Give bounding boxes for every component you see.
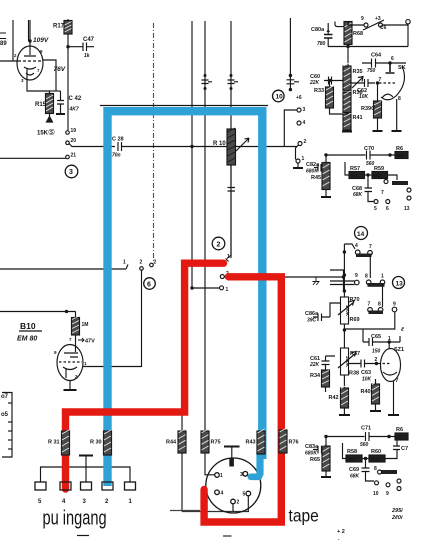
R35 wiper arrow [352, 77, 363, 89]
junction R69 bottom [343, 328, 346, 331]
ruler tick d [8, 439, 12, 441]
arrow C80a [327, 29, 330, 32]
wire row1b down [369, 255, 371, 278]
capacitor C82a [314, 164, 326, 172]
ground hatch on y277 [313, 277, 320, 285]
ruler tick c [8, 430, 12, 432]
wire pin2 to right cluster [224, 276, 343, 278]
svg-text:9: 9 [393, 302, 396, 308]
DIN pin5 [246, 491, 251, 496]
ground tube SZ bar [388, 414, 399, 416]
wire vertical x192 [191, 21, 193, 288]
resistor R33 body [326, 86, 334, 108]
svg-text:C83a: C83a [305, 444, 319, 450]
value box R60 [369, 455, 385, 462]
svg-text:R37: R37 [350, 351, 360, 357]
wire R38 bottom [343, 375, 345, 388]
junction C71 right [387, 435, 390, 438]
switch bank pin3 [297, 108, 301, 112]
svg-text:2: 2 [304, 139, 307, 145]
wire R69 bottom [343, 324, 345, 348]
resistor R17 body [64, 21, 72, 35]
potentiometer R70 body [341, 297, 351, 324]
svg-text:+ 2: + 2 [337, 529, 345, 535]
ruler tick e [8, 448, 12, 450]
svg-text:2: 2 [237, 500, 240, 506]
switch row3 contact 7 [368, 308, 373, 313]
ground R65 bar [321, 476, 331, 478]
wire R59 right [388, 175, 398, 180]
svg-text:+3: +3 [375, 16, 381, 22]
capacitor C28 series [118, 142, 297, 151]
svg-text:R68: R68 [353, 31, 363, 37]
svg-text:70n: 70n [112, 153, 121, 159]
svg-text:R65: R65 [310, 457, 320, 463]
svg-text:R43: R43 [246, 440, 256, 446]
svg-text:C80a: C80a [311, 27, 325, 33]
svg-text:76V: 76V [54, 66, 66, 73]
blue highlight main path [108, 111, 263, 486]
svg-text:2: 2 [154, 260, 157, 266]
wire tube SZ bottom [393, 381, 395, 414]
DIN pin1 [215, 473, 220, 478]
pin small circle right2 [397, 487, 401, 491]
switch row3 bar [369, 311, 384, 315]
wire y269 from left [0, 268, 126, 270]
svg-text:R70: R70 [350, 297, 360, 303]
dash mark below DIN [223, 535, 232, 537]
wire R65 leads [325, 437, 327, 477]
wire R68 top to switch [348, 22, 364, 26]
svg-text:SK: SK [398, 65, 406, 71]
input common wire y467 [41, 467, 131, 482]
junction pin6 C64 [388, 61, 391, 64]
junction y277 x343 [342, 275, 345, 278]
svg-text:R75: R75 [211, 440, 221, 446]
svg-text:R33: R33 [314, 88, 324, 94]
value box R58 [346, 455, 362, 462]
ground R42 bar [339, 414, 350, 416]
junction anode node [28, 39, 31, 42]
value box R59 [372, 172, 388, 179]
capacitor on x290 column [287, 80, 300, 84]
tube V4 arc [381, 66, 404, 100]
pin 5 circle [374, 200, 378, 204]
junction y436 left [324, 435, 327, 438]
switch 9-3 arrow [363, 20, 384, 30]
svg-text:5K6: 5K6 [351, 173, 360, 178]
wire pin20 to right long [69, 144, 115, 147]
switch bank pin1 [296, 159, 300, 163]
svg-text:109V: 109V [33, 37, 49, 44]
pin 1 circle right [397, 479, 401, 483]
svg-text:R 31: R 31 [48, 440, 60, 446]
svg-text:7: 7 [379, 77, 382, 83]
svg-text:ℓ: ℓ [400, 327, 404, 333]
svg-text:R35: R35 [353, 69, 363, 75]
svg-text:560: 560 [360, 442, 369, 448]
wire vertical left edge b [28, 20, 30, 41]
node circled 6 [144, 278, 156, 290]
arrow 47V [78, 338, 84, 342]
svg-text:C65: C65 [371, 334, 381, 340]
switch row1 contact b [368, 251, 373, 256]
wire R44 bottom lead [181, 453, 183, 512]
capacitor C64 [362, 59, 406, 68]
svg-text:1: 1 [123, 260, 126, 266]
wire EM80 pin1 right [83, 270, 142, 367]
wire horizontal y155 [326, 154, 366, 156]
value box R61 [395, 152, 408, 159]
svg-text:o7: o7 [1, 394, 9, 400]
svg-text:680K: 680K [306, 169, 318, 175]
svg-text:C47: C47 [83, 37, 95, 43]
tube V4 heater curve [382, 94, 393, 98]
svg-text:R 30: R 30 [90, 440, 102, 446]
wire switch pin1b to x192 [192, 287, 220, 289]
switch bank pin2 [298, 142, 302, 146]
svg-text:5: 5 [374, 206, 377, 212]
capacitor series below R10 [228, 188, 236, 192]
switch row2 bar [368, 283, 385, 287]
svg-text:1: 1 [226, 287, 229, 293]
wire contact9 down [344, 312, 395, 329]
left edge tick marks [0, 33, 6, 39]
junction R33 C60 [328, 79, 331, 82]
tube V1 envelope [17, 46, 43, 80]
svg-text:20: 20 [71, 138, 77, 144]
wire R40 leads [375, 379, 377, 410]
svg-text:R6: R6 [396, 146, 403, 152]
potentiometer R35 body [343, 62, 351, 91]
wire top right corner [383, 24, 409, 26]
wire R33 top [329, 81, 331, 88]
wire vertical x231 [230, 21, 232, 258]
node circled 2 [212, 237, 225, 250]
svg-text:22: 22 [397, 435, 403, 440]
svg-text:295i: 295i [391, 508, 403, 514]
switch S2 pin1b contact [220, 286, 224, 290]
junction pin2 [375, 362, 378, 365]
pin 8 circle [378, 470, 382, 474]
svg-text:9: 9 [361, 16, 364, 22]
capacitor C83a [313, 446, 326, 454]
svg-text:R45: R45 [311, 175, 321, 181]
ground V4 bar [392, 130, 402, 132]
junction C70 right [388, 153, 391, 156]
svg-text:EM 80: EM 80 [17, 336, 37, 343]
capacitor C61 [322, 356, 330, 370]
junction x290 y89 [289, 88, 292, 91]
pin bottom b [386, 483, 390, 487]
junction pin1 C65 [388, 340, 391, 343]
wire pin1 up right [399, 336, 401, 342]
red highlight path B [204, 277, 281, 522]
tube EM80 grid dashed [59, 361, 82, 363]
wire R60 right [385, 450, 397, 459]
wire R44 top lead [181, 413, 183, 431]
svg-text:1: 1 [381, 274, 384, 280]
DIN socket circle [206, 458, 261, 513]
svg-text:8: 8 [374, 466, 377, 472]
wire R36 R41 [346, 113, 348, 115]
svg-text:150: 150 [372, 349, 381, 355]
wire horizontal y436 [326, 436, 365, 438]
switch row3 contact 9 [392, 307, 397, 312]
resistor R15 leads [49, 91, 51, 117]
svg-text:pu ingang: pu ingang [43, 506, 107, 529]
small line left of red corner [170, 510, 200, 512]
ground EM80 bar [64, 389, 77, 391]
switch row2 contact 8 [366, 280, 371, 285]
red highlight path A [66, 263, 224, 489]
pin circle top right [406, 20, 410, 24]
svg-text:Ⓢ: Ⓢ [49, 129, 55, 137]
wire column x290 [289, 18, 291, 91]
ground R45 bar [321, 196, 331, 198]
svg-text:C6: C6 [380, 25, 387, 31]
resistor R75 body [201, 429, 209, 453]
capacitor C47 [68, 43, 94, 52]
svg-text:13: 13 [404, 206, 410, 212]
svg-text:R17: R17 [53, 24, 65, 30]
resistor R34 body [322, 370, 330, 387]
svg-text:o5: o5 [1, 412, 9, 418]
resistor R36 body [343, 91, 351, 113]
tube EM80 bottom lead [69, 381, 71, 391]
junction C47 node [66, 45, 69, 48]
wire vertical left edge a [12, 20, 14, 61]
svg-text:7: 7 [396, 378, 399, 384]
capacitor C70 series [367, 151, 396, 160]
DIN pin2 wire down [232, 504, 234, 512]
node circled 13 [393, 277, 405, 289]
svg-text:1: 1 [302, 156, 305, 162]
wire cathode down [27, 79, 50, 91]
svg-text:1: 1 [388, 336, 391, 342]
svg-text:750: 750 [367, 68, 376, 74]
svg-text:C64: C64 [371, 53, 382, 59]
svg-text:C7: C7 [401, 446, 408, 452]
svg-text:C69: C69 [349, 467, 359, 473]
wire C61 top bend [326, 356, 336, 392]
wire R68 top hook [335, 22, 344, 27]
R70 wiper arrow [338, 301, 354, 316]
potentiometer R37 body [341, 348, 351, 375]
ground R40 bar [370, 410, 381, 412]
svg-text:4: 4 [303, 120, 306, 126]
wire x343 up bend [330, 270, 344, 291]
DIN pin3 over blue [243, 472, 248, 477]
svg-text:B10: B10 [20, 321, 36, 331]
svg-text:10K: 10K [359, 94, 369, 100]
wire pin7 down [377, 83, 379, 101]
junction x344 y275 [343, 273, 346, 276]
capacitor on x231 column [228, 74, 239, 90]
contact bar right edge [392, 181, 408, 185]
resistor R68 body [344, 22, 352, 45]
wire R75 to DIN pin1 [205, 453, 215, 475]
svg-text:4K7: 4K7 [69, 107, 79, 113]
ground R39 bar [373, 130, 383, 132]
wire contact1 down [382, 285, 384, 307]
junction x290 y75 [289, 74, 292, 77]
wire R45 leads [325, 155, 327, 196]
svg-text:19: 19 [71, 128, 77, 134]
svg-text:13: 13 [396, 281, 404, 288]
tube V1 anode lead [24, 41, 36, 56]
svg-text:R69: R69 [350, 317, 360, 323]
wire R58 left bend [343, 443, 347, 459]
switch row2 contact 9 [355, 280, 360, 285]
value box R57 [349, 172, 365, 179]
input pin3 stub [85, 456, 87, 482]
node circled 3 [65, 165, 78, 178]
contact bar bottom right [381, 470, 397, 474]
tube EM80 cathode [63, 367, 77, 378]
svg-text:89: 89 [0, 41, 7, 47]
wire y311 from left [0, 311, 76, 313]
pin 6 circle [386, 200, 390, 204]
capacitor C86a [313, 314, 330, 322]
junction R36 bottom [345, 112, 348, 115]
capacitor C62 [351, 79, 375, 87]
switch S6 pin1 tick [126, 265, 128, 270]
switch 9-3 contact b [379, 23, 383, 27]
switch row2 contact 1 [380, 280, 385, 285]
svg-text:R76: R76 [289, 440, 299, 446]
wire R33 bottom [330, 108, 344, 114]
svg-text:R41: R41 [353, 115, 363, 121]
svg-text:39C: 39C [307, 318, 317, 324]
resistor R30 body over blue [104, 430, 112, 455]
potentiometer R10 body [227, 128, 236, 165]
tube V1 grid dashed [18, 60, 41, 62]
wire vertical x205 [204, 21, 206, 431]
resistor R39 body [374, 101, 382, 118]
pin 7 circle small [384, 180, 388, 184]
switch 9-3 contact a [364, 23, 368, 27]
tube V1 heater [26, 73, 34, 75]
wire pin2 jog to pin1 [296, 145, 299, 160]
dash wire pin2 to tube [378, 363, 390, 365]
DIN pin4 [215, 490, 220, 495]
tube V1 grid lead to left [0, 60, 18, 62]
switch row1 bar [356, 254, 372, 258]
wire R57 left bend [345, 162, 349, 175]
DIN chassis tee [224, 446, 240, 448]
junction x192 y288 [190, 286, 193, 289]
capacitor C69 [362, 459, 375, 482]
ground C42 bar [56, 113, 65, 115]
wire top horizontal above blue [100, 105, 268, 107]
ground R15 arrow [47, 117, 53, 123]
wire pin3 bracket [284, 110, 297, 147]
svg-text:R40: R40 [361, 389, 371, 395]
capacitor C80a plates [324, 35, 333, 39]
svg-text:tape: tape [289, 505, 319, 525]
switch row1 contact a [355, 250, 360, 255]
svg-text:100K: 100K [344, 305, 350, 317]
terminal rect pin1 [125, 482, 136, 490]
wire R10 bottom to switch pin1 [227, 165, 231, 259]
svg-text:R15: R15 [35, 102, 47, 108]
svg-text:7: 7 [381, 190, 384, 196]
wire thin y512 [182, 511, 249, 513]
svg-text:14: 14 [357, 231, 365, 238]
pin 21 terminal [66, 155, 70, 159]
DIN key post [229, 459, 234, 467]
terminal rect pin4 over red [60, 482, 71, 490]
pin column right edge a [407, 188, 411, 192]
svg-text:4: 4 [221, 491, 224, 497]
left ruler bracket [2, 393, 12, 458]
junction C69 top [364, 457, 367, 460]
junction y311 [65, 310, 68, 313]
svg-text:C71: C71 [361, 426, 371, 432]
switch bank pin4 [297, 121, 301, 125]
capacitor C71 series [366, 432, 396, 441]
junction x344 y252 [343, 250, 346, 253]
terminal rect pin3 [81, 482, 92, 490]
switch S2 pin1 tick [226, 259, 229, 262]
resistor 1M body [72, 316, 80, 335]
svg-text:R57: R57 [350, 166, 360, 172]
svg-text:6: 6 [386, 206, 389, 212]
wire R58-R60 [362, 458, 369, 460]
terminal rect pin5 [35, 482, 46, 490]
svg-text:5K6: 5K6 [374, 173, 383, 178]
wire anode top [29, 20, 31, 41]
svg-text:R42: R42 [329, 395, 339, 401]
switch S2 pin2 contact [220, 275, 224, 279]
svg-text:22K: 22K [309, 362, 320, 368]
ground input tee [79, 455, 93, 457]
node circled 14 [355, 227, 368, 240]
svg-text:R60: R60 [371, 449, 381, 455]
junction R68 bottom [346, 45, 349, 48]
ruler tick a [8, 402, 12, 404]
ground R41 bar [342, 131, 352, 133]
wire tube V4 pin8 down [396, 99, 398, 130]
switch S6 pin2 contact [140, 267, 144, 271]
svg-text:5: 5 [243, 492, 246, 498]
svg-text:10K: 10K [362, 377, 372, 383]
svg-text:R58: R58 [347, 449, 357, 455]
svg-text:+6: +6 [296, 95, 302, 101]
junction C68 top [366, 173, 369, 176]
wire cathode net horizontal [50, 90, 61, 92]
resistor R31 body over red [62, 430, 70, 455]
svg-text:4: 4 [355, 243, 358, 249]
pin7 junction [376, 81, 379, 84]
svg-text:6: 6 [391, 56, 394, 62]
resistor R43 body over blue [257, 429, 265, 454]
resistor R44 body [178, 429, 186, 453]
svg-text:6: 6 [147, 282, 151, 289]
wire R17 column [67, 19, 69, 130]
tube EM80 envelope [57, 345, 83, 381]
pin bottom a [375, 481, 379, 485]
switch row3 contact 8 [378, 308, 383, 313]
svg-text:8: 8 [378, 302, 381, 308]
resistor R15 body [46, 94, 54, 114]
svg-text:1: 1 [227, 254, 230, 260]
resistor R42 body [341, 385, 349, 409]
blue highlight tape stub [251, 452, 260, 477]
svg-text:2: 2 [217, 242, 221, 249]
svg-text:R38: R38 [349, 371, 359, 377]
